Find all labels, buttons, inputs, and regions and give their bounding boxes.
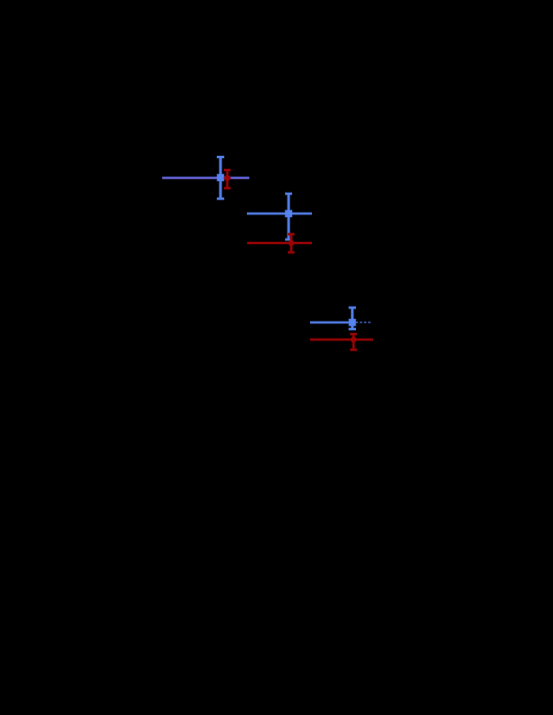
blue data point 3 y-error bar with caps [349, 308, 356, 330]
red data point 2 y-error bar with caps [288, 234, 295, 252]
blue data point 1 y-error bar with caps [217, 157, 224, 199]
blue data point 1 square marker [216, 174, 224, 182]
blue data point 3 x-error bar [310, 321, 372, 325]
blue data point 2 y-error bar with caps [285, 194, 292, 240]
red data point 1 y-error bar with caps [224, 170, 231, 188]
red data point 1 diamond marker [223, 174, 232, 183]
red data point 2 diamond marker [287, 239, 296, 248]
blue data point 1 x-error bar (overlapped with red, blended violet) [162, 176, 249, 180]
red data point 2 x-error bar [247, 241, 312, 245]
blue data point 2 x-error bar [247, 212, 312, 216]
red data point 3 y-error bar with caps [350, 334, 357, 350]
blue data point 2 square marker [285, 210, 293, 218]
red data point 1 x-error bar (hidden under blue, faint fringe) [162, 178, 249, 180]
blue data point 3 square marker [348, 318, 356, 326]
red data point 3 x-error bar [310, 338, 373, 342]
red data point 3 diamond marker [349, 335, 358, 344]
